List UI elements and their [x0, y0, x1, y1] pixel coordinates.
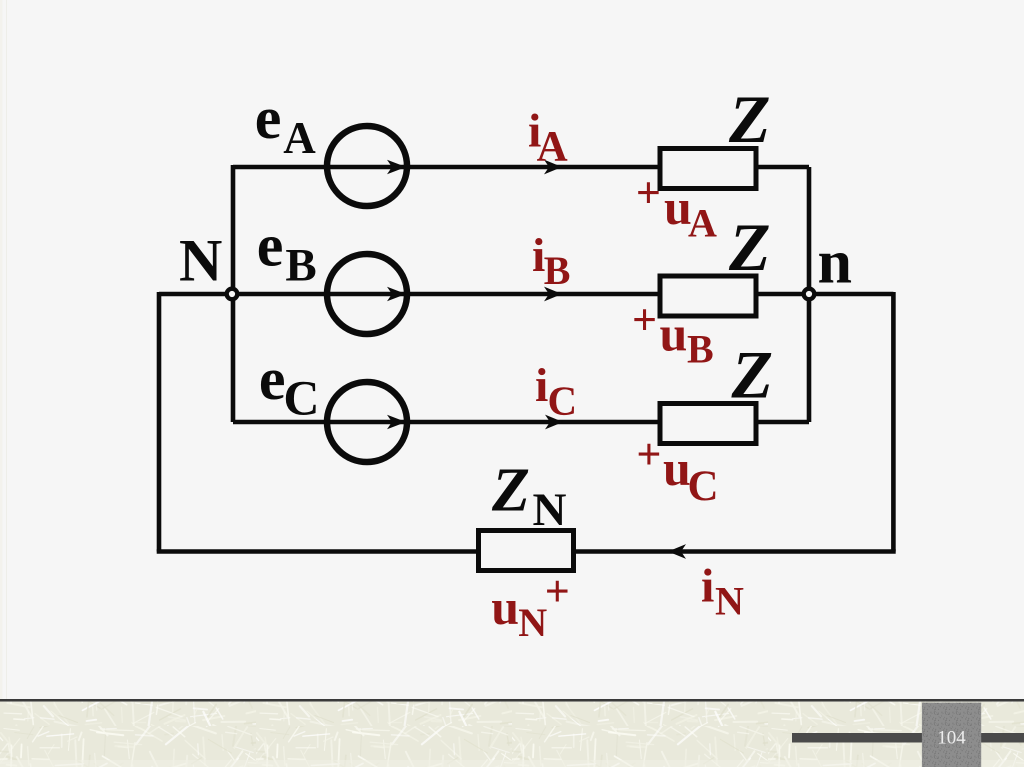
svg-text:B: B: [687, 327, 714, 372]
svg-text:Z: Z: [728, 209, 771, 285]
wire right load bus vertical: [807, 167, 812, 422]
current arrow iN (leftwards): [668, 544, 686, 559]
wire bottom neutral right: [574, 549, 896, 554]
footer accent bar right: [981, 733, 1024, 743]
load Z phase A box: [660, 149, 756, 189]
wire row A left (node to source to load): [233, 165, 660, 170]
source eC arrow: [387, 415, 406, 430]
wire row B right: [756, 292, 809, 297]
svg-text:e: e: [259, 346, 286, 412]
wire node n to outer right: [809, 292, 893, 297]
svg-text:A: A: [283, 113, 316, 163]
load Z phase B box: [660, 276, 756, 316]
page number box: [922, 703, 981, 767]
label iA: [528, 105, 568, 171]
footer separator line: [0, 699, 1024, 702]
svg-text:u: u: [491, 579, 519, 635]
svg-text:i: i: [701, 560, 714, 613]
label uN +: [491, 567, 570, 645]
node N junction: [227, 289, 238, 300]
source eB arrow: [387, 287, 406, 302]
label ZN: [491, 457, 567, 537]
wire row C right: [756, 420, 809, 425]
svg-text:+: +: [632, 296, 657, 345]
wire outer left vertical: [157, 292, 162, 552]
wire node N stub to outer loop: [159, 292, 233, 297]
node n junction: [804, 289, 815, 300]
svg-text:e: e: [255, 85, 282, 151]
svg-text:+: +: [545, 567, 570, 616]
source eA circle: [327, 126, 407, 206]
svg-text:B: B: [285, 240, 316, 292]
label eC: [259, 346, 320, 426]
svg-text:e: e: [257, 213, 284, 279]
svg-text:104: 104: [937, 728, 966, 749]
label + uA: [636, 169, 717, 246]
label eA: [255, 85, 317, 163]
label eB: [257, 213, 317, 292]
svg-text:C: C: [548, 377, 578, 423]
label iN: [701, 560, 744, 624]
svg-text:Z: Z: [731, 337, 774, 413]
svg-text:Z: Z: [491, 457, 530, 525]
svg-text:i: i: [535, 359, 548, 412]
wire outer right vertical: [891, 292, 896, 552]
source eB circle: [327, 254, 407, 334]
svg-text:+: +: [636, 430, 661, 479]
source eA arrow: [387, 160, 406, 175]
footer accent bar left: [792, 733, 922, 743]
svg-text:N: N: [533, 484, 567, 536]
svg-text:C: C: [688, 463, 719, 510]
current arrow iB: [544, 287, 562, 302]
wire row B left: [233, 292, 660, 297]
label + uB: [632, 296, 714, 372]
current arrow iC: [545, 415, 563, 430]
svg-text:n: n: [818, 229, 852, 297]
wire left phase bus vertical: [231, 165, 236, 422]
label iB: [532, 229, 570, 293]
label iC: [535, 359, 577, 423]
svg-text:A: A: [537, 123, 568, 170]
wire bottom neutral left: [157, 549, 478, 554]
svg-text:u: u: [660, 305, 688, 361]
svg-text:N: N: [179, 228, 222, 294]
svg-text:A: A: [688, 201, 717, 246]
source eC circle: [327, 382, 407, 462]
svg-text:B: B: [544, 248, 571, 293]
svg-text:C: C: [283, 370, 319, 426]
footer textured strip: [0, 702, 1024, 767]
svg-text:Z: Z: [728, 81, 771, 157]
wire row A right (load to node n branch): [756, 165, 809, 170]
svg-text:N: N: [715, 578, 744, 623]
neutral impedance ZN box: [479, 531, 574, 571]
wire row C left: [233, 420, 660, 425]
svg-text:N: N: [518, 600, 547, 645]
current arrow iA: [544, 160, 562, 175]
label + uC: [636, 430, 718, 510]
load Z phase C box: [660, 404, 756, 444]
svg-text:+: +: [636, 169, 661, 218]
